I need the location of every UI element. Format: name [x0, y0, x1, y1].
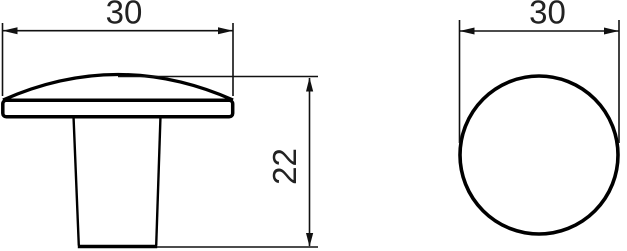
svg-text:22: 22	[266, 148, 303, 185]
svg-text:30: 30	[529, 0, 566, 31]
svg-text:30: 30	[106, 0, 143, 31]
